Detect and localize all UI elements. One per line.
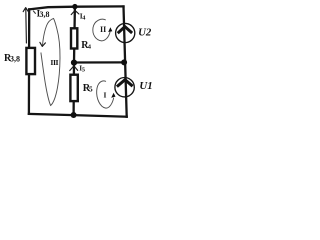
svg-text:4: 4 xyxy=(88,43,92,50)
loop I arrow xyxy=(97,81,116,108)
junction right xyxy=(121,59,127,65)
wire bottom xyxy=(29,114,127,117)
svg-text:III: III xyxy=(50,58,58,67)
loop III arrow xyxy=(40,18,60,105)
source U2 xyxy=(116,23,135,42)
resistor R5 xyxy=(70,75,77,101)
current arrow I3,8 xyxy=(23,8,28,43)
resistor R3,8 xyxy=(26,48,35,74)
svg-text:II: II xyxy=(100,25,106,34)
current arrow I5 xyxy=(70,66,78,71)
svg-text:5: 5 xyxy=(89,84,93,93)
loop II arrow xyxy=(93,19,112,41)
svg-text:I: I xyxy=(104,90,107,99)
svg-text:U1: U1 xyxy=(139,80,152,92)
wire left xyxy=(28,9,31,114)
wire top xyxy=(29,6,123,9)
source U1 xyxy=(115,78,134,97)
svg-text:3,8: 3,8 xyxy=(10,55,20,64)
svg-text:U2: U2 xyxy=(138,27,152,39)
svg-text:3,8: 3,8 xyxy=(40,10,50,19)
svg-text:5: 5 xyxy=(82,66,85,73)
current arrow I4 xyxy=(71,10,79,14)
wire middle horizontal xyxy=(74,61,124,63)
resistor R4 xyxy=(71,28,77,48)
junction bottom xyxy=(71,112,77,118)
wire middle branch xyxy=(74,7,75,116)
svg-text:4: 4 xyxy=(82,14,86,21)
junction middle xyxy=(71,60,77,66)
stray mark xyxy=(33,11,35,13)
junction top xyxy=(72,4,77,9)
wire right xyxy=(124,7,127,117)
